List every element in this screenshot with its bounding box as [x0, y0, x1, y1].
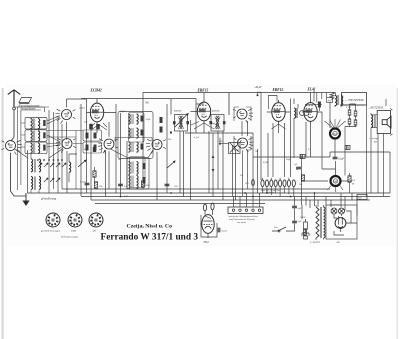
svg-text:von unten: von unten — [237, 221, 247, 224]
capacitor E5 — [279, 180, 282, 187]
ground symbol — [25, 193, 27, 201]
cap C19 — [292, 221, 297, 223]
trimmer circle TC1 — [300, 111, 305, 116]
wire fan v2 — [191, 122, 217, 130]
capacitor E3 — [270, 180, 273, 187]
switch arrow S3 — [78, 160, 86, 167]
cap dark col161 a — [160, 117, 163, 123]
junction dots bank — [37, 159, 39, 161]
wire netz — [340, 99, 386, 196]
coil L2b — [38, 131, 40, 141]
capacitor E7 — [287, 180, 290, 187]
wire bank left edges — [18, 107, 44, 193]
cap C16 — [211, 203, 214, 210]
svg-text:2×6,3V 0,3A: 2×6,3V 0,3A — [329, 204, 341, 207]
cap dark o3 — [141, 144, 144, 150]
svg-text:0,1μF: 0,1μF — [338, 158, 345, 161]
svg-text:468kHz: 468kHz — [174, 110, 182, 113]
variable capacitor C10 — [233, 109, 253, 123]
transformer T8 primary — [335, 96, 337, 106]
svg-text:EM4: EM4 — [203, 241, 210, 244]
wire gang links — [15, 99, 158, 200]
wire v2 — [185, 93, 253, 134]
svg-text:5k: 5k — [296, 169, 298, 171]
transformer T2 secondary — [39, 177, 41, 190]
tube V4 — [304, 100, 317, 124]
terminal strip box — [228, 207, 263, 214]
wire bus y193 — [28, 192, 391, 194]
wire IF1 — [180, 120, 191, 200]
coil core — [297, 108, 298, 118]
speaker frame — [377, 111, 390, 134]
wire left bus link — [27, 150, 29, 193]
core o1 — [132, 114, 133, 124]
wire eye2 — [302, 157, 353, 205]
resistor R2 — [96, 124, 100, 129]
wire plate row — [305, 103, 322, 105]
coil L4 — [294, 108, 296, 118]
wire t8 — [317, 93, 341, 108]
svg-text:Czeija, Nissl u. Co: Czeija, Nissl u. Co — [127, 225, 173, 230]
osc coil row1 b — [137, 114, 139, 124]
transformer TR core — [321, 207, 322, 238]
wire psu right — [334, 211, 357, 235]
wire mid bus — [253, 152, 390, 193]
resistor RZ zigzag — [330, 93, 334, 101]
svg-text:ECH42: ECH42 — [90, 89, 102, 93]
coil box row 1 — [25, 118, 47, 130]
cap dark o1 — [141, 116, 144, 122]
wire under C11 — [243, 150, 248, 196]
trimmer cap row3 — [43, 145, 45, 151]
wire fan v3 — [272, 124, 286, 129]
IF1 tuning arrow — [175, 114, 188, 128]
T5 core — [132, 162, 133, 174]
wire v7 — [200, 210, 217, 238]
cap C18 — [292, 206, 297, 208]
wire gang — [233, 121, 248, 200]
wire v3 grid hook — [268, 96, 277, 110]
rectifier tube V8 — [335, 216, 351, 232]
switch contact row S1 — [38, 163, 66, 167]
wire bus y203.5 — [95, 203, 265, 205]
core row3 — [34, 143, 35, 153]
capacitor E9 lone — [252, 180, 255, 186]
svg-text:→NETZTEIL: →NETZTEIL — [368, 106, 384, 110]
T6 core — [132, 176, 133, 188]
switch dots — [278, 230, 280, 232]
capacitor E6 — [283, 180, 286, 187]
box osc coils lower — [130, 157, 146, 188]
gang bracket — [234, 107, 251, 150]
svg-text:AZ1: AZ1 — [335, 241, 340, 244]
small box label2 — [345, 146, 350, 150]
wire funnel C6 — [148, 149, 154, 158]
wire r1 — [94, 167, 96, 183]
cap C12 — [333, 157, 338, 159]
socket SO2 — [68, 213, 82, 227]
svg-text:25k: 25k — [240, 175, 243, 177]
junction cap C2 — [85, 183, 90, 185]
resistor R10 — [301, 175, 304, 181]
psu enclosure — [326, 205, 357, 239]
resistor R5 — [354, 111, 357, 116]
cap C17 — [218, 228, 220, 233]
osc coil T5 — [129, 162, 131, 175]
tube V1 — [90, 101, 103, 125]
svg-text:5μF: 5μF — [298, 220, 302, 223]
capacitor E4 — [274, 180, 277, 187]
wire caps column — [294, 197, 296, 232]
svg-text:S=NSI/NT: S=NSI/NT — [310, 241, 321, 244]
resistor R3 — [348, 110, 351, 115]
svg-text:220V~: 220V~ — [300, 216, 307, 219]
svg-text:EL41: EL41 — [307, 88, 316, 92]
svg-text:0,1: 0,1 — [308, 149, 311, 151]
resistor R8 — [141, 181, 144, 187]
osc coil row2 b — [137, 128, 139, 138]
core T2 — [34, 177, 35, 191]
cap C15 — [203, 204, 206, 211]
wire l5 — [69, 154, 77, 182]
small box label — [300, 155, 305, 159]
IF transformer IF2 — [210, 115, 226, 132]
wire v4 — [302, 93, 336, 170]
osc coil row3 a — [129, 142, 131, 152]
ferrite label parallelogram — [19, 98, 32, 104]
osc coil T6 — [129, 176, 131, 189]
svg-text:EM4: EM4 — [70, 230, 76, 233]
dial lamp LP1 — [331, 208, 337, 214]
coil L3b — [38, 143, 40, 153]
dial lamp LP2 — [339, 208, 345, 214]
osc coil row3 b — [137, 142, 139, 152]
svg-text:0,1: 0,1 — [124, 185, 127, 188]
cap dark g2r2a — [86, 145, 89, 151]
faint scanner edge band left — [2, 88, 4, 339]
osc coil row2 a — [129, 128, 131, 138]
wire bus y196.5 — [81, 196, 390, 198]
svg-text:200pF: 200pF — [120, 111, 126, 113]
wire C1 to ground — [11, 153, 26, 196]
svg-text:(auf Unterseite des Chassis): (auf Unterseite des Chassis) — [229, 218, 255, 221]
svg-text:0,1μF: 0,1μF — [222, 230, 228, 233]
svg-text:0,1μF: 0,1μF — [194, 137, 200, 139]
T8 core — [338, 95, 339, 105]
wire bank verticals — [49, 110, 62, 193]
box NETZTEIL — [342, 93, 367, 106]
mains parts left — [302, 219, 309, 239]
wire fan to C3 — [47, 116, 60, 125]
wire funnel C5 — [105, 149, 129, 158]
junction dot — [170, 131, 172, 133]
switch S5 — [272, 227, 294, 231]
svg-text:gFundStrang: gFundStrang — [41, 197, 57, 201]
trimmer cap row2 — [43, 132, 45, 138]
transformer T1 secondary — [39, 159, 41, 172]
resistor R1 — [93, 171, 96, 177]
cap C21 — [296, 167, 301, 169]
cap C20 dark — [318, 102, 321, 108]
core o3 — [132, 142, 133, 152]
svg-text:Netz: Netz — [357, 197, 362, 200]
volume pot box — [229, 143, 240, 154]
svg-text:←NETZTEIL: ←NETZTEIL — [345, 98, 365, 102]
coil L3a — [31, 143, 33, 153]
svg-text:1M: 1M — [255, 151, 258, 153]
wire IF2 — [209, 131, 223, 200]
wire c20 — [314, 91, 319, 111]
svg-text:50k: 50k — [299, 184, 302, 186]
wire bus y200 — [91, 199, 370, 201]
capacitor E1 — [261, 180, 264, 187]
coil box row 3 — [25, 142, 47, 154]
wire oval stems — [263, 178, 294, 197]
socket SO3 — [89, 213, 103, 227]
svg-text:Röhrenfassungen: Röhrenfassungen — [60, 236, 79, 239]
wire c5-c6 link — [115, 138, 152, 142]
T5 sec — [137, 162, 139, 175]
core T1 — [34, 159, 35, 173]
cap dark o4 — [143, 163, 146, 169]
resistor R6 — [348, 176, 351, 182]
AVC arrows — [212, 155, 215, 172]
trimmer cap row1 — [43, 120, 45, 126]
switch contact row S2 — [44, 178, 60, 182]
coil L1a — [31, 119, 33, 129]
wire speaker links — [371, 113, 384, 197]
faint scanner edge band right — [397, 88, 399, 339]
variable capacitor C4 — [56, 138, 76, 152]
cap dark g2r1a — [86, 133, 89, 139]
T9 core — [374, 115, 375, 128]
magic eye V5 — [330, 129, 340, 139]
wire column area — [253, 93, 291, 197]
speaker cone — [387, 116, 391, 128]
variable capacitor C3 — [55, 109, 75, 123]
switch arrow S4 — [167, 161, 175, 168]
svg-text:50pF: 50pF — [146, 119, 151, 121]
wire bank-to-grid2 links — [47, 131, 83, 190]
svg-text:50pF: 50pF — [286, 159, 291, 161]
svg-text:⌁M.μF: ⌁M.μF — [254, 86, 262, 89]
svg-text:0,5M: 0,5M — [263, 162, 268, 164]
wire pot link — [220, 138, 229, 144]
svg-text:500pF: 500pF — [79, 108, 86, 110]
box osc coils upper — [129, 113, 145, 143]
resistor R7 — [94, 182, 97, 188]
wire eye2 fan — [328, 185, 344, 192]
transformer T1 primary — [31, 159, 33, 172]
coil box row 2 — [25, 130, 47, 142]
tube V7 — [202, 215, 214, 234]
wire r6 — [349, 173, 351, 193]
antenna A1 — [8, 90, 20, 110]
IF transformer IF1 — [173, 115, 189, 132]
speaker ticks — [390, 109, 392, 136]
speaker magnet — [382, 120, 387, 125]
terminal pins — [232, 209, 260, 211]
wire bus y189 — [62, 188, 330, 190]
wire ladder — [345, 104, 357, 176]
svg-text:468kHz: 468kHz — [212, 110, 220, 113]
osc coil row1 a — [129, 114, 131, 124]
box grid2 row2 — [83, 142, 102, 153]
wire tr — [316, 205, 324, 240]
junction dots row — [53, 159, 55, 161]
wire v3 — [267, 112, 290, 133]
svg-text:6,3V: 6,3V — [124, 196, 129, 198]
svg-text:EBF15: EBF15 — [272, 88, 284, 92]
cap dark o5 — [143, 177, 146, 183]
svg-text:Ferrando W 317/1 und 3: Ferrando W 317/1 und 3 — [101, 233, 199, 243]
svg-text:5μF: 5μF — [298, 207, 302, 210]
box osc lower — [127, 158, 149, 190]
cap dark g2r2b — [94, 145, 97, 151]
junction dots buses — [244, 192, 246, 194]
svg-text:NW: NW — [327, 100, 331, 102]
transformer T2 primary — [31, 177, 33, 190]
magic eye V6 — [331, 176, 341, 186]
wire v1 — [81, 99, 196, 201]
resistor R2b — [93, 147, 96, 152]
coil L5 — [69, 162, 71, 172]
capacitor E2 — [265, 180, 268, 187]
junction dot pot — [219, 143, 221, 145]
cap C14 — [165, 184, 170, 186]
svg-text:EBF15: EBF15 — [197, 89, 209, 93]
core o2 — [132, 128, 133, 138]
svg-text:Ansicht der Werkzeuganschlüsse: Ansicht der Werkzeuganschlüsse — [227, 215, 258, 218]
wire eye1 down — [330, 102, 335, 157]
socket SO1 — [46, 213, 60, 227]
wire antenna feed right — [14, 107, 49, 112]
svg-text:gewöhnl.Fassungen: gewöhnl.Fassungen — [41, 230, 61, 233]
core row2 — [34, 131, 35, 141]
cap C13 — [118, 184, 123, 186]
capacitor E8 — [292, 180, 295, 187]
cap dark g2r1b — [94, 133, 97, 139]
wire antenna lead down — [11, 110, 14, 141]
wire osc verticals — [121, 93, 197, 197]
wire top bus B+ — [143, 93, 336, 116]
wire fan to C4 — [47, 135, 61, 147]
svg-text:4Ω: 4Ω — [374, 140, 377, 143]
tube V3 — [272, 100, 285, 124]
resistor R4 — [348, 119, 351, 124]
dashed column connectors — [196, 104, 204, 133]
wire psu drops — [302, 193, 357, 219]
resistor R5b — [354, 120, 357, 125]
variable capacitor C1 sunburst — [2, 140, 22, 154]
transformer TR primary zigzag — [316, 207, 319, 238]
wire fan v1 — [91, 123, 107, 130]
box grid2 row1 — [83, 130, 102, 141]
transformer TR secondary — [324, 207, 326, 238]
grid cap C7 — [89, 124, 93, 129]
T8 secondary — [341, 96, 343, 106]
wire det — [294, 99, 306, 159]
box osc big — [118, 112, 153, 159]
cap dark o2 — [141, 130, 144, 136]
variable capacitor C11 — [234, 138, 254, 152]
trimmer circle TC2 — [304, 111, 309, 116]
svg-text:25k: 25k — [168, 139, 171, 141]
variable capacitor C6 osc — [146, 139, 166, 153]
T6 sec — [137, 176, 139, 189]
tube V2 — [197, 100, 210, 124]
coil L1b — [38, 119, 40, 129]
svg-text:AZ1: AZ1 — [91, 230, 96, 233]
cap dark col161 b — [160, 127, 163, 133]
variable capacitor C5 — [98, 139, 118, 153]
resistor R9 — [303, 229, 306, 235]
coil L2a — [31, 131, 33, 141]
faint scan tone over drawing band — [6, 84, 396, 246]
wire eye1 fan — [325, 119, 346, 129]
wire strip risers — [234, 193, 260, 207]
core row1 — [34, 119, 35, 129]
tiny box NW — [327, 98, 333, 103]
top right small box — [357, 195, 367, 200]
output transformer T9 vertical — [371, 115, 373, 128]
